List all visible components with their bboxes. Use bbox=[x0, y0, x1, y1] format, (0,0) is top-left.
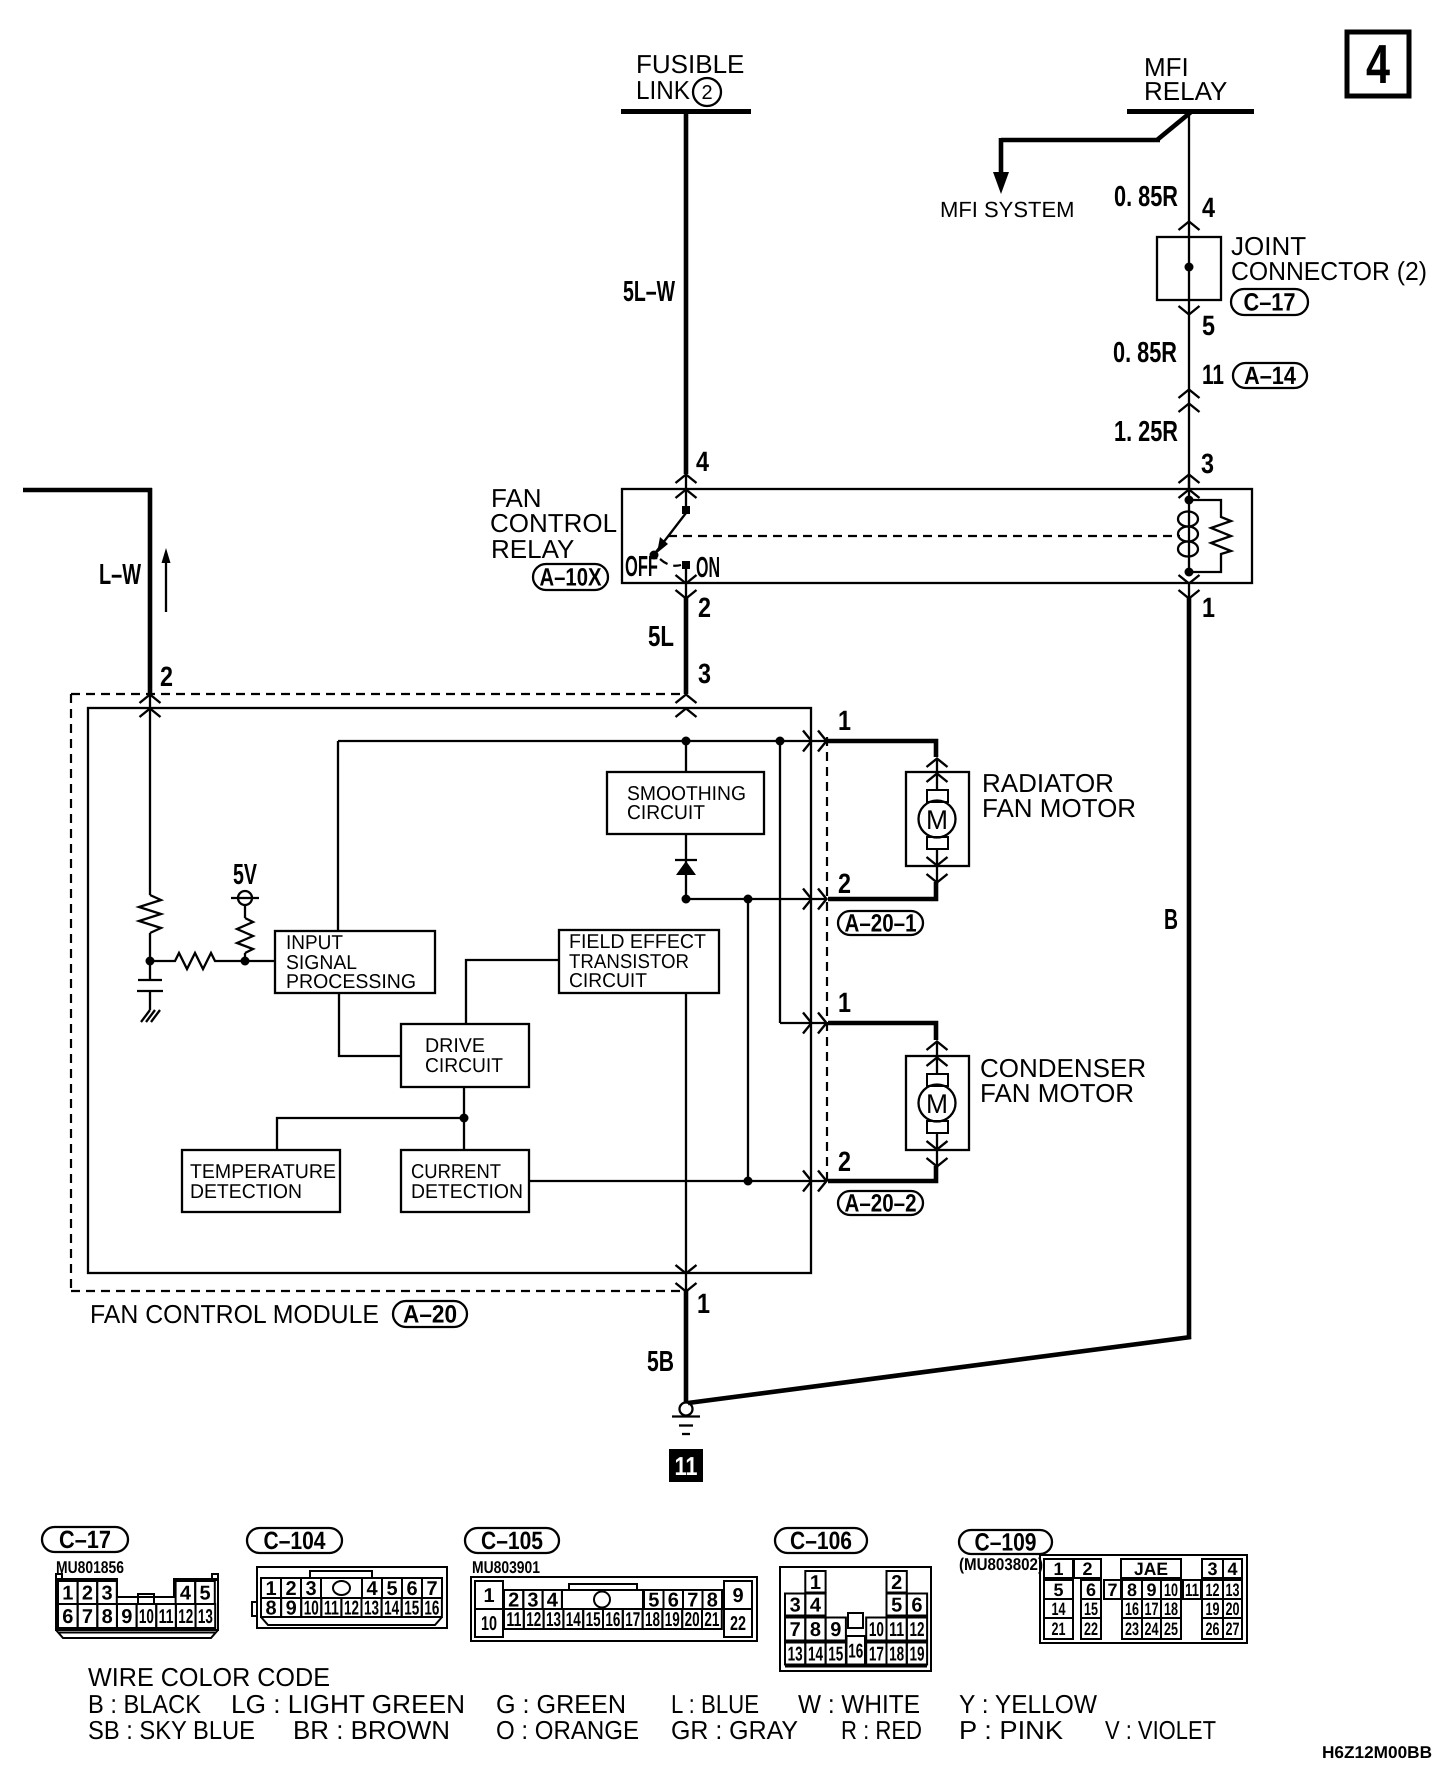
connector label C-17 footer bbox=[42, 1527, 128, 1552]
relay switch arm bbox=[656, 513, 686, 552]
svg-text:2: 2 bbox=[698, 592, 711, 623]
drive circuit box bbox=[401, 1024, 529, 1087]
module pin 2 chevrons bbox=[140, 695, 161, 704]
svg-text:15: 15 bbox=[828, 1644, 843, 1666]
connector label C-104 bbox=[247, 1528, 342, 1553]
module pin 1 chevrons bbox=[685, 1273, 687, 1292]
svg-text:DETECTION: DETECTION bbox=[190, 1181, 302, 1203]
svg-text:C–17: C–17 bbox=[1244, 289, 1296, 317]
svg-text:6: 6 bbox=[911, 1595, 922, 1617]
wire B diagonal to ground bbox=[688, 1337, 1191, 1403]
resistor R3 pull-up bbox=[237, 918, 253, 953]
svg-text:17: 17 bbox=[869, 1644, 884, 1666]
svg-text:1: 1 bbox=[483, 1585, 494, 1607]
svg-text:25: 25 bbox=[1164, 1619, 1178, 1639]
node junction at 5V pull-up bbox=[241, 957, 250, 966]
svg-text:20: 20 bbox=[1226, 1599, 1240, 1619]
module pin 3 chevrons bbox=[676, 695, 697, 704]
svg-text:21: 21 bbox=[1052, 1619, 1066, 1639]
ground symbol bbox=[680, 1403, 693, 1416]
svg-text:B: B bbox=[1164, 904, 1178, 936]
svg-text:GR : GRAY: GR : GRAY bbox=[671, 1715, 798, 1745]
svg-text:22: 22 bbox=[1084, 1619, 1098, 1639]
svg-text:27: 27 bbox=[1226, 1619, 1240, 1639]
svg-text:2: 2 bbox=[701, 82, 712, 104]
svg-text:16: 16 bbox=[605, 1609, 620, 1631]
svg-text:12: 12 bbox=[1206, 1580, 1220, 1600]
svg-text:9: 9 bbox=[732, 1585, 743, 1607]
svg-text:5B: 5B bbox=[647, 1346, 674, 1378]
svg-text:19: 19 bbox=[1206, 1599, 1220, 1619]
svg-text:23: 23 bbox=[1125, 1619, 1139, 1639]
svg-text:CIRCUIT: CIRCUIT bbox=[425, 1055, 503, 1077]
svg-text:11: 11 bbox=[324, 1598, 339, 1620]
svg-text:3: 3 bbox=[790, 1595, 801, 1617]
direction arrow on L-W bbox=[165, 560, 167, 612]
svg-text:H6Z12M00BB: H6Z12M00BB bbox=[1322, 1743, 1432, 1762]
svg-text:CIRCUIT: CIRCUIT bbox=[569, 970, 647, 992]
wire 5L-W from fusible link bbox=[684, 114, 689, 474]
svg-text:15: 15 bbox=[1084, 1599, 1098, 1619]
svg-text:C–109: C–109 bbox=[975, 1529, 1037, 1557]
svg-text:JAE: JAE bbox=[1134, 1559, 1168, 1579]
svg-text:FAN MOTOR: FAN MOTOR bbox=[980, 1078, 1134, 1108]
wire to temperature detection bbox=[277, 1118, 464, 1150]
connector label A-20 bbox=[393, 1301, 467, 1327]
svg-text:10: 10 bbox=[1164, 1580, 1178, 1600]
svg-text:12: 12 bbox=[178, 1606, 193, 1628]
capacitor C1 bbox=[138, 979, 162, 981]
svg-text:16: 16 bbox=[424, 1598, 439, 1620]
svg-text:CONNECTOR (2): CONNECTOR (2) bbox=[1231, 256, 1427, 286]
fan control module inner box bbox=[88, 708, 811, 1273]
wire radiator fan pin 1 bbox=[828, 741, 936, 757]
svg-text:BR : BROWN: BR : BROWN bbox=[293, 1715, 450, 1745]
svg-text:13: 13 bbox=[788, 1644, 803, 1666]
connector C-105 pin diagram bbox=[471, 1577, 757, 1641]
pin 1 fan control relay bbox=[1188, 583, 1190, 599]
svg-text:7: 7 bbox=[790, 1619, 801, 1641]
svg-text:7: 7 bbox=[82, 1606, 93, 1628]
svg-text:P : PINK: P : PINK bbox=[959, 1715, 1064, 1745]
svg-text:A–20–1: A–20–1 bbox=[845, 910, 917, 938]
svg-text:3: 3 bbox=[1201, 448, 1214, 479]
condenser fan motor M2 bbox=[906, 1056, 969, 1150]
svg-text:2: 2 bbox=[838, 1146, 851, 1177]
svg-text:14: 14 bbox=[808, 1644, 824, 1666]
svg-text:RELAY: RELAY bbox=[491, 534, 574, 564]
connector label A-20-1 bbox=[838, 911, 923, 935]
svg-text:(MU803802): (MU803802) bbox=[959, 1555, 1043, 1574]
ON contact post bbox=[682, 561, 690, 569]
svg-text:21: 21 bbox=[704, 1609, 719, 1631]
svg-text:11: 11 bbox=[675, 1451, 698, 1481]
svg-text:13: 13 bbox=[364, 1598, 379, 1620]
svg-text:14: 14 bbox=[1052, 1599, 1066, 1619]
svg-text:2: 2 bbox=[82, 1583, 93, 1605]
svg-text:4: 4 bbox=[1202, 192, 1215, 223]
svg-text:FIELD EFFECT: FIELD EFFECT bbox=[569, 931, 706, 953]
svg-text:9: 9 bbox=[121, 1606, 132, 1628]
svg-text:22: 22 bbox=[730, 1613, 746, 1635]
svg-text:7: 7 bbox=[1107, 1580, 1117, 1600]
svg-text:24: 24 bbox=[1145, 1619, 1159, 1639]
connector C-17 pin diagram bbox=[56, 1579, 218, 1630]
svg-text:C–105: C–105 bbox=[481, 1527, 543, 1555]
svg-text:8: 8 bbox=[265, 1598, 276, 1620]
svg-text:RELAY: RELAY bbox=[1144, 76, 1227, 106]
connector label C-109 bbox=[959, 1530, 1052, 1554]
pin 5 joint connector bbox=[1179, 306, 1200, 315]
svg-text:15: 15 bbox=[586, 1609, 601, 1631]
svg-text:2: 2 bbox=[160, 661, 173, 692]
svg-text:13: 13 bbox=[198, 1606, 213, 1628]
resistor R1 input divider bbox=[139, 895, 161, 933]
field effect transistor circuit box bbox=[559, 930, 719, 993]
svg-text:1: 1 bbox=[838, 987, 851, 1018]
connector label A-20-2 bbox=[838, 1191, 923, 1215]
svg-text:5: 5 bbox=[199, 1583, 210, 1605]
svg-text:9: 9 bbox=[1146, 1580, 1156, 1600]
svg-text:14: 14 bbox=[384, 1598, 400, 1620]
wire current detection to condenser fan pin 2 bbox=[529, 1180, 826, 1182]
svg-text:TEMPERATURE: TEMPERATURE bbox=[190, 1161, 336, 1183]
svg-text:11: 11 bbox=[159, 1606, 174, 1628]
pin 2 fan control relay bbox=[685, 583, 687, 599]
svg-text:15: 15 bbox=[404, 1598, 419, 1620]
svg-text:L–W: L–W bbox=[99, 559, 141, 591]
relay actuation dashed link bbox=[668, 535, 1180, 537]
wire sense branch vertical bbox=[747, 899, 749, 1181]
arrow to MFI SYSTEM bbox=[993, 172, 1009, 194]
diode D1 bbox=[685, 834, 687, 899]
svg-text:C–106: C–106 bbox=[790, 1527, 852, 1555]
wire MFI relay to fan control relay pin 3 bbox=[1188, 114, 1190, 488]
svg-text:DETECTION: DETECTION bbox=[411, 1181, 523, 1203]
svg-text:M: M bbox=[926, 1089, 948, 1119]
svg-text:1: 1 bbox=[838, 705, 851, 736]
inline connector chevrons A-14 bbox=[1179, 390, 1200, 399]
chassis ground hatch bbox=[141, 1010, 160, 1022]
svg-text:16: 16 bbox=[848, 1640, 863, 1662]
svg-text:5: 5 bbox=[1202, 310, 1215, 341]
connector label A-14 bbox=[1233, 363, 1307, 388]
wire condenser fan pin 1 bbox=[828, 1023, 936, 1040]
svg-text:18: 18 bbox=[1164, 1599, 1178, 1619]
svg-text:C–104: C–104 bbox=[264, 1527, 326, 1555]
page number box 4 bbox=[1347, 32, 1409, 96]
svg-text:19: 19 bbox=[909, 1644, 924, 1666]
wire condenser fan pin 2 bbox=[828, 1166, 936, 1181]
svg-text:O : ORANGE: O : ORANGE bbox=[496, 1715, 639, 1745]
svg-text:4: 4 bbox=[810, 1595, 822, 1617]
svg-text:R : RED: R : RED bbox=[841, 1715, 922, 1745]
svg-text:16: 16 bbox=[1125, 1599, 1139, 1619]
wire radiator fan pin 2 bbox=[828, 882, 936, 899]
svg-text:3: 3 bbox=[1207, 1559, 1217, 1579]
dashed throw arc bbox=[660, 559, 681, 566]
svg-text:5L: 5L bbox=[648, 621, 674, 653]
svg-text:2: 2 bbox=[891, 1572, 902, 1594]
svg-text:WIRE COLOR CODE: WIRE COLOR CODE bbox=[88, 1662, 330, 1692]
svg-text:8: 8 bbox=[1127, 1580, 1137, 1600]
svg-text:26: 26 bbox=[1206, 1619, 1220, 1639]
svg-text:5: 5 bbox=[1053, 1580, 1063, 1600]
connector label C-106 bbox=[775, 1528, 867, 1553]
temperature detection box bbox=[182, 1150, 340, 1212]
svg-text:1: 1 bbox=[697, 1288, 710, 1319]
svg-text:13: 13 bbox=[1226, 1580, 1240, 1600]
node junction at divider bbox=[146, 957, 155, 966]
svg-text:V : VIOLET: V : VIOLET bbox=[1105, 1715, 1216, 1745]
svg-text:17: 17 bbox=[1145, 1599, 1159, 1619]
svg-text:2: 2 bbox=[838, 868, 851, 899]
svg-text:A–10X: A–10X bbox=[540, 564, 602, 592]
svg-text:11: 11 bbox=[1185, 1580, 1199, 1600]
svg-text:6: 6 bbox=[62, 1606, 73, 1628]
svg-text:C–17: C–17 bbox=[59, 1526, 111, 1554]
fan control relay box A-10X bbox=[622, 489, 1252, 583]
svg-text:M: M bbox=[926, 805, 948, 835]
svg-text:5V: 5V bbox=[233, 859, 257, 891]
current detection box bbox=[401, 1150, 529, 1212]
connector C-109 pin diagram bbox=[1040, 1555, 1247, 1643]
svg-text:12: 12 bbox=[526, 1609, 541, 1631]
wire B from relay pin 1 bbox=[1187, 598, 1192, 1339]
svg-text:9: 9 bbox=[830, 1619, 841, 1641]
branch wire to MFI system bbox=[1157, 112, 1191, 140]
svg-text:0. 85R: 0. 85R bbox=[1114, 181, 1178, 213]
svg-text:17: 17 bbox=[625, 1609, 640, 1631]
wire L-W from off-page bbox=[23, 488, 152, 493]
connector label A-10X bbox=[533, 564, 608, 590]
svg-text:1. 25R: 1. 25R bbox=[1114, 416, 1178, 448]
connector C-106 pin diagram bbox=[780, 1567, 931, 1671]
svg-text:12: 12 bbox=[344, 1598, 359, 1620]
svg-text:MU803901: MU803901 bbox=[472, 1558, 540, 1577]
svg-text:ON: ON bbox=[696, 552, 720, 584]
ground reference 11 bbox=[669, 1449, 703, 1482]
smoothing circuit box bbox=[607, 772, 764, 834]
svg-text:DRIVE: DRIVE bbox=[425, 1035, 485, 1057]
svg-text:10: 10 bbox=[139, 1606, 154, 1628]
connector label C-105 bbox=[465, 1528, 559, 1553]
svg-text:1: 1 bbox=[810, 1572, 821, 1594]
svg-text:19: 19 bbox=[665, 1609, 680, 1631]
svg-text:10: 10 bbox=[481, 1613, 497, 1635]
svg-text:PROCESSING: PROCESSING bbox=[286, 971, 416, 993]
svg-text:0. 85R: 0. 85R bbox=[1113, 337, 1177, 369]
node diode output bbox=[682, 895, 691, 904]
svg-text:11: 11 bbox=[1202, 359, 1224, 390]
resistor R2 series bbox=[150, 953, 241, 969]
svg-text:8: 8 bbox=[102, 1606, 113, 1628]
svg-text:FAN CONTROL MODULE: FAN CONTROL MODULE bbox=[90, 1299, 379, 1329]
top rail wire bbox=[338, 740, 826, 742]
svg-text:11: 11 bbox=[506, 1609, 521, 1631]
svg-text:4: 4 bbox=[180, 1583, 192, 1605]
wire 5L relay to module bbox=[684, 598, 689, 694]
connector C-104 pin diagram bbox=[257, 1567, 447, 1628]
svg-text:A–20: A–20 bbox=[403, 1301, 457, 1329]
svg-text:A–14: A–14 bbox=[1244, 362, 1296, 390]
svg-text:10: 10 bbox=[869, 1619, 884, 1641]
svg-text:1: 1 bbox=[1053, 1559, 1063, 1579]
wire FET to drive circuit bbox=[466, 960, 559, 1024]
wire to condenser fan pin 1 bbox=[779, 741, 781, 1023]
svg-text:8: 8 bbox=[810, 1619, 821, 1641]
svg-text:A–20–2: A–20–2 bbox=[845, 1190, 917, 1218]
svg-text:2: 2 bbox=[1082, 1559, 1092, 1579]
svg-text:10: 10 bbox=[304, 1598, 319, 1620]
svg-text:MFI SYSTEM: MFI SYSTEM bbox=[940, 197, 1074, 222]
main FET output wire to module pin 1 bbox=[685, 993, 687, 1273]
svg-text:SB : SKY BLUE: SB : SKY BLUE bbox=[88, 1715, 255, 1745]
svg-text:CIRCUIT: CIRCUIT bbox=[627, 802, 705, 824]
svg-text:3: 3 bbox=[101, 1583, 112, 1605]
svg-text:9: 9 bbox=[286, 1598, 297, 1620]
svg-text:4: 4 bbox=[696, 446, 709, 477]
svg-text:13: 13 bbox=[546, 1609, 561, 1631]
svg-text:14: 14 bbox=[566, 1609, 582, 1631]
relay shunt resistor bbox=[1189, 500, 1231, 572]
svg-text:OFF: OFF bbox=[625, 551, 658, 583]
wire input box to drive circuit bbox=[339, 993, 401, 1056]
svg-text:CURRENT: CURRENT bbox=[411, 1161, 501, 1183]
radiator fan motor M1 bbox=[906, 772, 969, 866]
svg-text:5: 5 bbox=[891, 1595, 902, 1617]
svg-text:4: 4 bbox=[1227, 1559, 1237, 1579]
fusible link terminal bar bbox=[621, 109, 751, 114]
svg-text:18: 18 bbox=[889, 1644, 904, 1666]
svg-text:11: 11 bbox=[889, 1619, 904, 1641]
svg-text:FAN MOTOR: FAN MOTOR bbox=[982, 793, 1136, 823]
svg-text:INPUT: INPUT bbox=[286, 932, 343, 954]
connector label C-17 bbox=[1231, 289, 1308, 315]
wire from top rail to input box bbox=[337, 741, 339, 931]
svg-text:12: 12 bbox=[909, 1619, 924, 1641]
svg-text:3: 3 bbox=[698, 658, 711, 689]
MFI relay terminal bar bbox=[1127, 109, 1254, 114]
svg-text:LINK: LINK bbox=[636, 75, 691, 105]
svg-text:5L–W: 5L–W bbox=[623, 276, 675, 308]
svg-text:MU801856: MU801856 bbox=[56, 1558, 124, 1577]
wire to radiator fan pin 2 bbox=[686, 898, 826, 900]
svg-text:1: 1 bbox=[1202, 592, 1215, 623]
joint connector C-17 bbox=[1157, 237, 1221, 300]
wire 5B to ground bbox=[684, 1291, 689, 1403]
fan control module dashed boundary A-20 bbox=[71, 693, 686, 695]
relay switch common post bbox=[682, 506, 690, 514]
svg-text:18: 18 bbox=[645, 1609, 660, 1631]
svg-text:6: 6 bbox=[1086, 1580, 1096, 1600]
svg-text:20: 20 bbox=[685, 1609, 700, 1631]
wire drive circuit down bbox=[463, 1087, 465, 1150]
svg-text:4: 4 bbox=[1366, 33, 1390, 95]
input signal processing box bbox=[275, 931, 435, 993]
svg-text:1: 1 bbox=[62, 1583, 73, 1605]
relay coil bbox=[1188, 475, 1190, 572]
wire input divider bbox=[149, 695, 151, 895]
